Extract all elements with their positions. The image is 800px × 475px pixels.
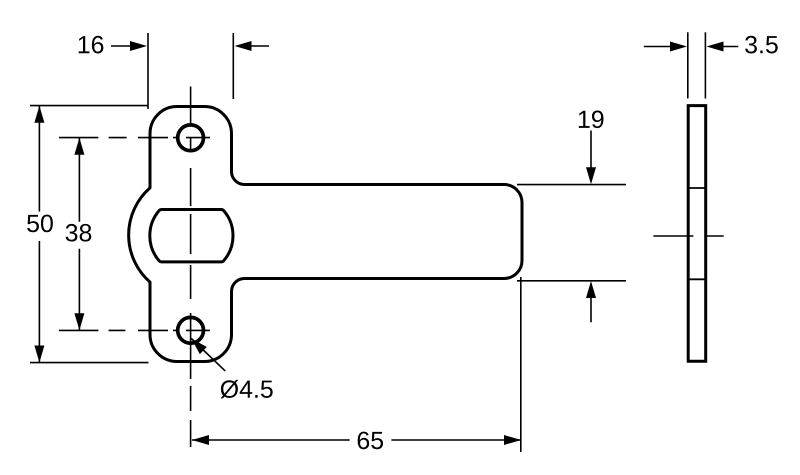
dim50 bottom extension line <box>30 362 149 364</box>
dim50 top extension line <box>30 105 149 107</box>
dim65 right extension line <box>520 277 522 452</box>
dim16 left arrow <box>111 45 132 47</box>
dim3.5 left arrow <box>644 46 672 48</box>
hole leader arrow <box>191 339 207 355</box>
dim3.5 right extension line <box>704 32 706 98</box>
dim50 text <box>27 215 53 233</box>
dim65 left arrow <box>192 435 209 445</box>
side view arm bottom edge line <box>688 278 706 280</box>
hole leader line <box>191 339 225 372</box>
dim16 left extension line <box>147 33 149 109</box>
dim16 right extension line <box>232 33 234 99</box>
dim19 bottom extension line <box>517 280 626 282</box>
slot cutout <box>150 209 233 261</box>
dim16 text <box>79 36 104 54</box>
dim38 top arrow <box>74 138 84 155</box>
dim38 text <box>66 224 92 242</box>
dim19 text <box>579 111 604 129</box>
dim50 dimension line <box>38 106 40 363</box>
centerline vertical through holes <box>190 87 192 448</box>
top hole <box>178 125 204 151</box>
dim19 bottom arrow <box>590 296 592 322</box>
dim19 top arrow <box>590 131 592 170</box>
part outline front view <box>129 107 522 362</box>
dim38 dimension line <box>78 138 80 331</box>
hole diameter text <box>221 380 273 398</box>
dim3.5 left extension line <box>687 32 689 98</box>
dim16 right arrow <box>250 45 269 47</box>
dim65 dimension line <box>192 439 521 441</box>
dim50 bottom arrow <box>34 346 44 363</box>
dim19 top extension line <box>517 184 626 186</box>
dim3.5 right arrow <box>721 46 738 48</box>
dim3.5 text <box>745 36 778 54</box>
side view arm top edge line <box>688 187 706 189</box>
centerline top hole horizontal <box>59 137 210 139</box>
side view plate outline <box>688 106 706 362</box>
dim50 top arrow <box>34 106 44 123</box>
bottom hole <box>178 317 204 343</box>
side view centerline <box>653 235 723 237</box>
dim38 bottom arrow <box>74 313 84 330</box>
dim65 text <box>358 432 383 450</box>
centerline bottom hole horizontal <box>59 329 210 331</box>
dim65 right arrow <box>504 435 521 445</box>
